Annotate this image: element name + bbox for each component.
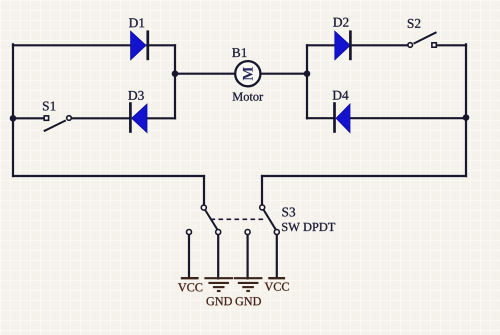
ground symbol 1 bbox=[204, 278, 233, 291]
pole contact left bbox=[201, 205, 206, 210]
wire S3 pin1 to VCC left bbox=[188, 235, 190, 278]
node junction right rail / D4 bbox=[463, 114, 470, 121]
lever right bbox=[264, 210, 276, 230]
node junction mid-left rail / motor bbox=[172, 70, 179, 77]
label D2 bbox=[333, 18, 348, 27]
wire right rail vertical bbox=[465, 44, 467, 176]
label SW DPDT bbox=[282, 223, 335, 231]
wire S3 pin2 to GND bbox=[217, 235, 219, 279]
label Motor bbox=[233, 93, 264, 101]
diode D1 bbox=[131, 30, 148, 60]
label GND L bbox=[207, 297, 232, 305]
switch S1 bbox=[44, 116, 71, 132]
wire motor to mid-right rail bbox=[261, 73, 308, 75]
wire mid-left vertical rail bbox=[174, 45, 176, 118]
wire D1 cathode to mid-left rail bbox=[147, 44, 175, 46]
label GND R bbox=[236, 297, 261, 305]
wire left rail vertical bbox=[12, 44, 14, 176]
diode D3 bbox=[130, 102, 147, 133]
node junction left rail / S1 branch bbox=[10, 115, 17, 122]
label B1 bbox=[232, 48, 246, 57]
power VCC left symbol bbox=[181, 277, 199, 279]
wire left rail to S1 bbox=[13, 117, 45, 119]
wire S2 to right rail bbox=[437, 44, 467, 46]
throw pin 1 bbox=[187, 230, 192, 235]
label VCC L bbox=[178, 283, 202, 291]
diode D2 bbox=[335, 30, 351, 60]
throw pin 2 bbox=[216, 230, 221, 235]
ground symbol 2 bbox=[234, 278, 263, 291]
label VCC R bbox=[265, 283, 289, 291]
label S3 bbox=[282, 208, 295, 217]
wire mid-left rail to motor bbox=[175, 73, 235, 75]
wire S3 pin4 to VCC right bbox=[276, 235, 278, 278]
throw pin 4 bbox=[274, 230, 279, 235]
wire bottom-right horizontal bbox=[262, 175, 466, 177]
wire stub to S3 left pole bbox=[203, 176, 205, 205]
wire D2 cathode to S2 bbox=[351, 44, 408, 46]
wire S3 pin3 to GND bbox=[247, 235, 249, 279]
motor B1 bbox=[235, 61, 260, 86]
tie bar dashed bbox=[211, 218, 267, 220]
diode D4 bbox=[335, 102, 351, 133]
wire D4 cathode to mid-right rail bbox=[307, 117, 335, 119]
wire D3 anode to mid-left rail bbox=[147, 117, 175, 119]
wire stub to S3 right pole bbox=[261, 176, 263, 205]
power VCC right symbol bbox=[268, 277, 285, 279]
motor M glyph bbox=[243, 67, 253, 80]
label D4 bbox=[333, 91, 349, 100]
lever left bbox=[205, 210, 217, 230]
label D3 bbox=[128, 91, 144, 100]
wire bottom-left horizontal bbox=[13, 175, 204, 177]
throw pin 3 bbox=[245, 230, 250, 235]
node junction mid-right rail / motor bbox=[304, 70, 311, 77]
pole contact right bbox=[260, 205, 265, 210]
wire S1 to D3 cathode bbox=[72, 117, 131, 119]
wire mid-right vertical rail bbox=[306, 45, 308, 118]
wire top-left horizontal to D1 anode bbox=[13, 44, 131, 46]
switch S3 (SW DPDT) bbox=[187, 205, 280, 235]
label S2 bbox=[408, 19, 421, 28]
wire mid-right rail to D2 anode bbox=[307, 44, 335, 46]
wire D4 anode to right rail bbox=[350, 117, 466, 119]
switch S2 bbox=[408, 32, 437, 47]
label D1 bbox=[129, 18, 144, 27]
label S1 bbox=[43, 102, 56, 111]
